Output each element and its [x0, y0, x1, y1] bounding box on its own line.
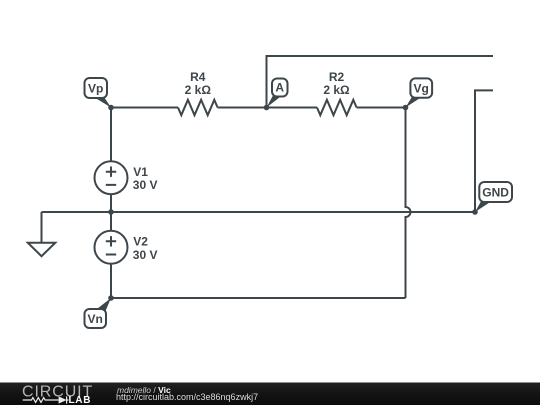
- wire V2 to node Vn: [110, 264, 112, 298]
- ground symbol: [28, 212, 56, 256]
- resistor R2: [317, 100, 357, 115]
- junction V1 V2 ground rail: [108, 209, 114, 215]
- voltage source V1: [95, 161, 128, 194]
- wire GND branch corner: [475, 90, 493, 212]
- svg-text:V2: V2: [133, 234, 148, 248]
- svg-text:2 kΩ: 2 kΩ: [185, 83, 212, 97]
- wire Vg node down with hop over ground rail: [406, 108, 411, 299]
- footer bar: [0, 383, 540, 405]
- svg-text:30 V: 30 V: [133, 248, 158, 262]
- voltage source V2: [95, 231, 128, 264]
- resistor R4: [178, 100, 218, 115]
- junction node A: [264, 105, 270, 111]
- wire R2 to node Vg: [357, 107, 406, 109]
- svg-text:LAB: LAB: [69, 395, 92, 405]
- svg-text:Vg: Vg: [414, 81, 429, 95]
- wire R4 to R2 through node A: [218, 107, 317, 109]
- wire bottom rail Vn to Vg branch: [111, 297, 406, 299]
- wire ground rail to V2: [110, 212, 112, 231]
- svg-text:Vn: Vn: [88, 312, 103, 326]
- junction node Vg: [403, 105, 409, 111]
- svg-text:A: A: [275, 81, 284, 95]
- node flag A: [267, 79, 288, 108]
- junction node GND: [472, 209, 478, 215]
- svg-text:http://circuitlab.com/c3e86nq6: http://circuitlab.com/c3e86nq6zwkj7: [116, 392, 258, 402]
- node flag Vn: [85, 298, 112, 328]
- svg-text:2 kΩ: 2 kΩ: [323, 83, 350, 97]
- wire top rail from node A up and right: [267, 56, 494, 108]
- junction node Vp: [108, 105, 114, 111]
- svg-text:30 V: 30 V: [133, 178, 158, 192]
- logo resistor-diode glyph: [23, 396, 69, 403]
- svg-text:Vp: Vp: [88, 82, 103, 96]
- svg-text:R2: R2: [329, 70, 345, 84]
- wire V1 to ground rail: [110, 194, 112, 212]
- node flag Vp: [85, 78, 112, 108]
- junction node Vn: [108, 295, 114, 301]
- wire main rail Vp to R4: [111, 107, 178, 109]
- wire ground rail: [42, 211, 476, 213]
- svg-text:V1: V1: [133, 165, 148, 179]
- wire Vp node down to V1: [110, 108, 112, 162]
- node flag GND: [475, 182, 512, 212]
- node flag Vg: [406, 78, 433, 107]
- svg-text:GND: GND: [482, 185, 509, 199]
- svg-text:R4: R4: [190, 70, 206, 84]
